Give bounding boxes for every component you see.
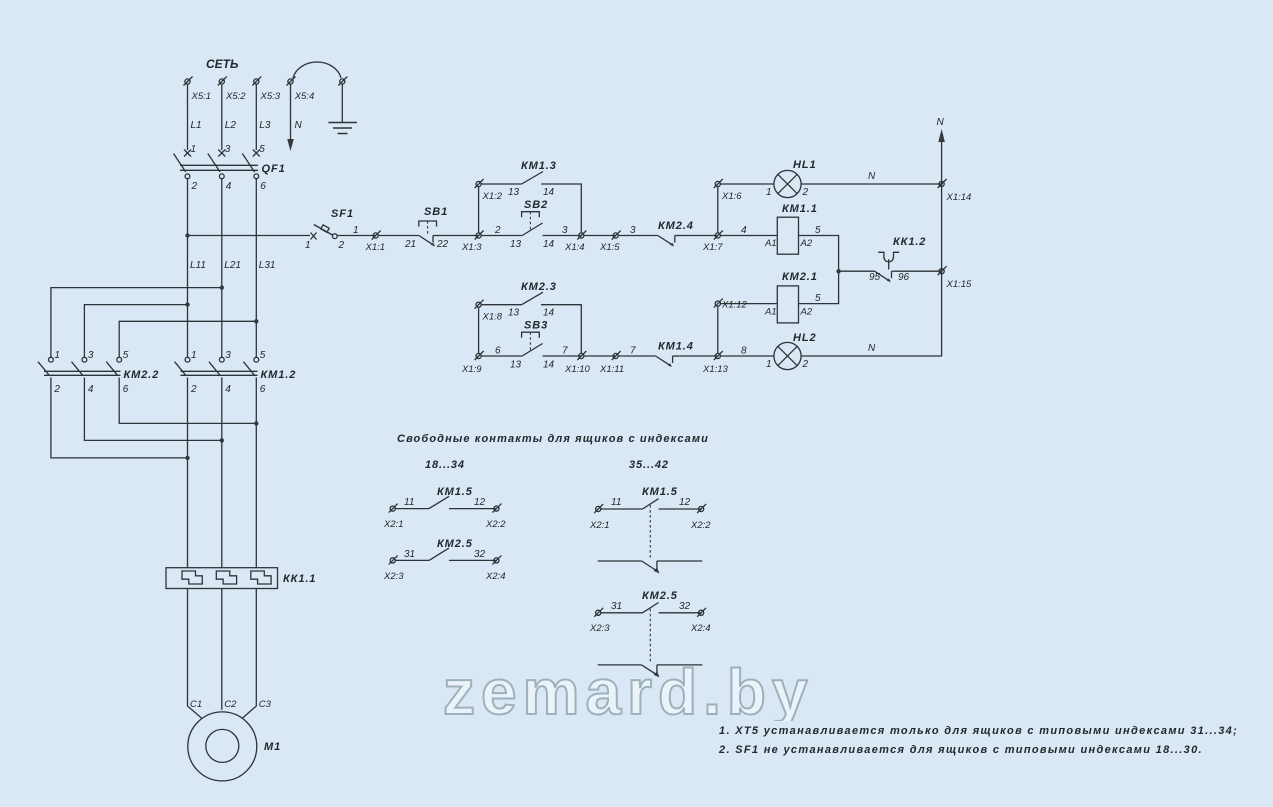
coil KM2.1 (777, 286, 798, 323)
svg-text:1: 1 (191, 350, 197, 361)
wire X1:9 to SB3 (481, 355, 522, 357)
svg-text:HL1: HL1 (793, 159, 816, 171)
wire L11 lower vertical (187, 378, 189, 568)
svg-text:13: 13 (508, 187, 520, 198)
wire junction to KK1.2 (839, 270, 875, 272)
terminal X5:1 (184, 77, 193, 86)
svg-text:4: 4 (225, 384, 231, 395)
wire KM1.5 to X2:2 (659, 508, 702, 510)
svg-text:7: 7 (630, 346, 636, 357)
svg-text:1: 1 (766, 359, 772, 370)
terminal X2:1 (left col) (389, 504, 398, 513)
svg-text:N: N (868, 343, 876, 354)
wire KK1.2 to X1:15 (899, 270, 942, 272)
svg-text:3: 3 (630, 225, 636, 236)
terminal PE jumper (338, 77, 347, 86)
pushbutton SB1 (NC) plunger (419, 221, 437, 227)
svg-text:13: 13 (510, 239, 522, 250)
wire KM1.1 to junction (799, 236, 839, 272)
svg-text:2: 2 (802, 359, 809, 370)
contactor KM2.2 pole 1 (38, 357, 53, 375)
mechanical link dashes (KM2.5) (649, 609, 651, 662)
wire KM1.5 to X2:2 (449, 508, 496, 510)
contact KM1.3 (NO) (522, 172, 543, 185)
linked break contact of KM2.5 (598, 665, 703, 676)
svg-text:X1:15: X1:15 (946, 279, 973, 290)
svg-text:2: 2 (190, 384, 197, 395)
wire L11 vertical (187, 179, 189, 358)
svg-text:СЕТЬ: СЕТЬ (206, 57, 239, 71)
svg-text:1: 1 (766, 187, 772, 198)
svg-text:14: 14 (543, 239, 555, 250)
contactor KM1.2 pole 1 (175, 357, 190, 375)
svg-text:КМ2.1: КМ2.1 (782, 271, 818, 283)
mechanical link dashes (KM1.5) (649, 505, 651, 558)
wire crossover top 2 (KM2.2 pole2 to L11) (84, 305, 187, 358)
svg-text:X1:5: X1:5 (599, 242, 620, 253)
branch KM1.3: X1:3 up to X1:2 (478, 187, 480, 234)
pushbutton SB2 (NO) plunger (522, 212, 540, 218)
earth lead wire (341, 84, 343, 122)
wire crossover bottom 2 (KM2.2 pole2 to L21) (84, 378, 221, 441)
svg-text:C2: C2 (224, 699, 237, 710)
node control tap on L11 (185, 233, 189, 237)
motor M1 inner circle (206, 729, 239, 762)
wire X1:7 to KM1.1 (720, 235, 777, 237)
svg-text:L11: L11 (190, 260, 206, 271)
wire crossover top 3 (KM2.2 pole3 to L31) (119, 321, 256, 357)
contact KM1.5 (NO, right col) (643, 499, 659, 509)
svg-text:13: 13 (510, 360, 522, 371)
wire crossover top 1 (KM2.2 pole1 to L21) (51, 288, 222, 358)
svg-text:32: 32 (679, 601, 691, 612)
terminal X2:4 (right col) (697, 608, 706, 617)
svg-text:1: 1 (191, 144, 197, 155)
svg-text:5: 5 (123, 350, 129, 361)
node L31 top link (254, 319, 258, 323)
wire L2 drop from X5:2 (221, 84, 223, 150)
terminal X5:3 (252, 77, 261, 86)
svg-text:X1:7: X1:7 (702, 242, 723, 253)
svg-text:X1:9: X1:9 (461, 364, 482, 375)
terminal X1:15 (938, 266, 947, 275)
terminal X1:12 (714, 299, 723, 308)
terminal X1:1 (372, 231, 381, 240)
linked break contact of KM1.5 (598, 561, 703, 572)
svg-text:КМ2.2: КМ2.2 (124, 369, 160, 381)
svg-text:N: N (295, 120, 303, 131)
svg-text:SB1: SB1 (424, 206, 448, 218)
wire N drop from X5:4 with arrow (290, 84, 292, 141)
svg-text:L31: L31 (259, 260, 276, 271)
svg-text:X2:3: X2:3 (589, 623, 610, 634)
wire L21 lower vertical (221, 378, 223, 568)
svg-text:L1: L1 (191, 120, 202, 131)
svg-text:14: 14 (543, 360, 555, 371)
contactor KM2.2 pole 3 (106, 357, 121, 375)
contactor KM2.2 pole 2 (72, 357, 87, 375)
svg-text:X1:11: X1:11 (599, 364, 624, 375)
svg-text:C3: C3 (259, 699, 272, 710)
svg-text:31: 31 (611, 601, 622, 612)
pushbutton SB3 (NO) plunger (522, 332, 540, 338)
svg-text:C1: C1 (190, 699, 202, 710)
wire HL1 to X1:14 (801, 183, 942, 185)
terminal X5:4 (287, 77, 296, 86)
SB3 contact (NO) (522, 344, 542, 357)
svg-text:6: 6 (495, 346, 501, 357)
wire SB2 to X1:4 (543, 235, 582, 237)
wire X1:12 down to X1:13 (717, 306, 719, 353)
terminal X5:2 (218, 77, 227, 86)
wire C1 below KK1.1 (188, 589, 203, 719)
wire X1:11 to KM1.4 (618, 355, 655, 357)
wire X2:1 to KM1.5 (395, 508, 429, 510)
KK1.1 heater element 2 (216, 571, 236, 584)
QF1 pole 1 contact (174, 150, 192, 179)
svg-text:КМ1.1: КМ1.1 (782, 203, 818, 215)
svg-text:N: N (868, 171, 876, 182)
svg-text:5: 5 (260, 350, 266, 361)
wire X1:1 to SB1 (378, 235, 419, 237)
svg-text:1. ХТ5 устанавливается только: 1. ХТ5 устанавливается только для ящиков… (719, 725, 1238, 737)
svg-text:32: 32 (474, 549, 486, 560)
bus N vertical with arrow (941, 141, 943, 357)
svg-text:6: 6 (260, 181, 266, 192)
svg-text:11: 11 (404, 497, 414, 508)
svg-text:КМ2.3: КМ2.3 (521, 281, 557, 293)
wire KM2.1 to junction (799, 271, 839, 303)
svg-text:Свободные контакты для ящиков: Свободные контакты для ящиков с индексам… (397, 433, 709, 445)
terminal X1:14 (938, 179, 947, 188)
svg-text:X1:1: X1:1 (365, 242, 386, 253)
node L21 top link (220, 285, 224, 289)
QF1 pole 2 contact (208, 150, 226, 179)
node L11 bottom link (185, 456, 189, 460)
svg-text:4: 4 (741, 225, 747, 236)
svg-text:X1:8: X1:8 (482, 312, 503, 323)
svg-text:X1:13: X1:13 (702, 364, 729, 375)
node L11 top link (185, 302, 189, 306)
terminal X2:3 (right col) (594, 608, 603, 617)
svg-text:4: 4 (226, 181, 232, 192)
wire KM2.5 to X2:4 (659, 612, 702, 614)
wire C2 below KK1.1 (221, 589, 223, 710)
svg-text:13: 13 (508, 308, 520, 319)
svg-text:3: 3 (88, 350, 94, 361)
contactor KM1.2 pole 3 (243, 357, 258, 375)
contact KM2.5 (NO, right col) (643, 603, 659, 613)
terminal X1:7 (714, 231, 723, 240)
watermark zemard.by (443, 655, 814, 721)
svg-text:КК1.1: КК1.1 (283, 573, 316, 585)
svg-text:8: 8 (741, 346, 747, 357)
wire L1 drop from X5:1 (187, 84, 189, 150)
svg-text:L3: L3 (259, 120, 271, 131)
KK1.1 heater element 1 (182, 571, 202, 584)
svg-text:22: 22 (436, 239, 449, 250)
svg-text:1: 1 (353, 225, 359, 236)
svg-text:95: 95 (869, 272, 881, 283)
svg-text:5: 5 (259, 144, 265, 155)
wire crossover bottom 3 (KM2.2 pole3 to L31) (119, 378, 256, 424)
svg-text:M1: M1 (264, 741, 281, 753)
terminal X2:2 (left col) (492, 504, 501, 513)
motor M1 outer circle (188, 712, 257, 781)
svg-text:6: 6 (260, 384, 266, 395)
svg-text:X5:3: X5:3 (260, 91, 281, 102)
wire X2:3 to KM2.5 (601, 612, 643, 614)
contact KM2.3 (NO) (522, 292, 543, 305)
svg-text:96: 96 (898, 272, 910, 283)
svg-text:12: 12 (474, 497, 486, 508)
svg-text:КМ1.5: КМ1.5 (642, 486, 678, 498)
svg-text:X1:2: X1:2 (482, 191, 503, 202)
svg-text:3: 3 (562, 225, 568, 236)
wire X1:2 to KM1.3 (481, 183, 521, 185)
terminal X1:6 (714, 179, 723, 188)
svg-text:КМ2.5: КМ2.5 (642, 590, 678, 602)
contact KM1.5 (NO, left col) (429, 496, 449, 508)
svg-text:X2:1: X2:1 (383, 519, 404, 530)
svg-text:X1:14: X1:14 (946, 192, 972, 203)
wire C3 below KK1.1 (242, 589, 256, 719)
svg-text:3: 3 (225, 350, 231, 361)
terminal X1:13 (714, 351, 723, 360)
wire SB1 to X1:3 (441, 235, 479, 237)
svg-text:X5:2: X5:2 (225, 91, 246, 102)
branch KM2.3: X1:9 up to X1:8 (478, 307, 480, 353)
wire X2:3 to KM2.5 (395, 559, 429, 561)
contactor KM1.2 pole 2 (209, 357, 224, 375)
wire SF1 to X1:1 (337, 235, 375, 237)
jumper arc X5:4 to earth terminal (293, 62, 341, 78)
svg-text:А2: А2 (800, 238, 813, 249)
wire KM1.3 to X1:4 corner (541, 184, 581, 233)
svg-text:X2:1: X2:1 (589, 520, 610, 531)
wire KM2.3 to X1:10 corner (541, 305, 581, 354)
wire KM2.5 to X2:4 (449, 559, 496, 561)
svg-text:N: N (937, 117, 945, 128)
wire X1:8 to KM2.3 (481, 304, 521, 306)
svg-text:КМ1.2: КМ1.2 (261, 369, 297, 381)
svg-text:QF1: QF1 (262, 163, 286, 175)
wire SB3 to X1:10 (543, 355, 582, 357)
svg-text:КМ1.4: КМ1.4 (658, 341, 694, 353)
contact KM2.5 (NO, left col) (429, 548, 449, 560)
node L31 bottom link (254, 421, 258, 425)
terminal X1:8 (475, 300, 484, 309)
svg-text:А2: А2 (800, 307, 813, 318)
wire L31 lower vertical (255, 378, 257, 568)
svg-text:А1: А1 (764, 307, 777, 318)
svg-text:2: 2 (494, 225, 501, 236)
wire X1:4 to X1:5 (584, 235, 616, 237)
svg-text:SB2: SB2 (524, 199, 548, 211)
SB1 contact (419, 236, 441, 246)
svg-text:5: 5 (815, 293, 821, 304)
svg-text:X1:12: X1:12 (721, 300, 748, 311)
svg-text:31: 31 (404, 549, 415, 560)
wire X2:1 to KM1.5 (601, 508, 643, 510)
svg-text:14: 14 (543, 308, 555, 319)
svg-text:3: 3 (225, 144, 231, 155)
svg-text:5: 5 (815, 225, 821, 236)
terminal X2:1 (right col) (594, 504, 603, 513)
wire X1:5 to KM2.4 (618, 235, 658, 237)
lamp HL2 (774, 342, 801, 369)
svg-text:КМ2.4: КМ2.4 (658, 220, 694, 232)
wire X1:6 to HL1 (720, 183, 774, 185)
wire L21 vertical (221, 179, 223, 358)
thermal relay KK1.1 box (166, 568, 278, 589)
svg-text:7: 7 (562, 346, 568, 357)
terminal X1:2 (475, 179, 484, 188)
svg-text:X2:2: X2:2 (690, 520, 711, 531)
node L21 bottom link (220, 438, 224, 442)
terminal X2:3 (left col) (389, 555, 398, 564)
terminal X2:2 (right col) (697, 504, 706, 513)
wire X1:12 to KM2.1 (720, 303, 777, 305)
svg-text:HL2: HL2 (793, 332, 816, 344)
KM2.2 linkage bar (44, 370, 121, 372)
svg-text:X5:1: X5:1 (191, 91, 212, 102)
contact KM1.4 (NC) (656, 356, 680, 366)
svg-text:SB3: SB3 (524, 320, 548, 332)
svg-text:2: 2 (802, 187, 809, 198)
svg-text:X1:6: X1:6 (721, 191, 742, 202)
terminal X2:4 (left col) (492, 555, 501, 564)
terminal X1:5 (612, 231, 621, 240)
wire L3 drop from X5:3 (255, 84, 257, 150)
svg-text:12: 12 (679, 497, 691, 508)
svg-text:X1:10: X1:10 (564, 364, 591, 375)
svg-text:X1:4: X1:4 (564, 242, 585, 253)
wire crossover bottom 1 (KM2.2 pole1 to L11) (51, 378, 188, 458)
coil KM1.1 (777, 217, 798, 254)
svg-text:18...34: 18...34 (425, 459, 465, 471)
svg-text:14: 14 (543, 187, 555, 198)
terminal X1:11 (612, 351, 621, 360)
wire control row 1 left segment (188, 235, 311, 237)
thermal element symbol KK1.2 (878, 252, 899, 262)
wire X1:3 to SB2 (481, 235, 522, 237)
KM1.2 linkage bar (181, 370, 258, 372)
wire X1:10 to X1:11 (584, 355, 616, 357)
svg-text:35...42: 35...42 (629, 459, 669, 471)
KK1.1 heater element 3 (251, 571, 271, 584)
terminal X1:9 (475, 351, 484, 360)
svg-text:КМ1.5: КМ1.5 (437, 486, 473, 498)
svg-text:X1:3: X1:3 (461, 242, 482, 253)
terminal X1:10 (577, 351, 586, 360)
svg-text:X2:2: X2:2 (485, 519, 506, 530)
wire HL2 to N bus (801, 355, 942, 357)
svg-text:L21: L21 (224, 260, 241, 271)
svg-text:2: 2 (191, 181, 198, 192)
svg-text:6: 6 (123, 384, 129, 395)
svg-text:КМ2.5: КМ2.5 (437, 538, 473, 550)
contact KK1.2 (NC) (875, 271, 899, 281)
svg-text:11: 11 (611, 497, 621, 508)
wire X1:7 up to X1:6 (717, 187, 719, 234)
svg-text:КМ1.3: КМ1.3 (521, 160, 557, 172)
svg-text:X2:4: X2:4 (485, 571, 506, 582)
svg-text:1: 1 (54, 350, 60, 361)
svg-text:2: 2 (53, 384, 60, 395)
ground symbol (328, 122, 357, 124)
contact KM2.4 (NC) (658, 236, 682, 246)
svg-text:X5:4: X5:4 (294, 91, 315, 102)
lamp HL1 (774, 170, 801, 197)
svg-text:2. SF1 не устанавливается для: 2. SF1 не устанавливается для ящиков с т… (718, 744, 1203, 756)
QF1 linkage bar (180, 164, 258, 166)
svg-text:А1: А1 (764, 238, 777, 249)
wire KM2.4 to X1:7 (682, 235, 718, 237)
wire L31 vertical (255, 179, 257, 358)
terminal X1:4 (577, 231, 586, 240)
wire X1:13 to HL2 (720, 355, 774, 357)
QF1 pole 3 contact (242, 150, 259, 179)
SB2 contact (NO) (522, 223, 542, 236)
svg-text:X2:3: X2:3 (383, 571, 404, 582)
svg-text:SF1: SF1 (331, 208, 354, 220)
svg-text:21: 21 (404, 239, 416, 250)
node coil junction (836, 269, 840, 273)
svg-text:2: 2 (338, 240, 345, 251)
svg-text:L2: L2 (225, 120, 237, 131)
svg-text:1: 1 (305, 240, 311, 251)
wire KM1.4 to X1:13 (680, 355, 718, 357)
svg-text:КК1.2: КК1.2 (893, 236, 926, 248)
svg-text:4: 4 (88, 384, 94, 395)
svg-text:X2:4: X2:4 (690, 623, 711, 634)
breaker SF1 (311, 225, 338, 240)
terminal X1:3 (475, 231, 484, 240)
